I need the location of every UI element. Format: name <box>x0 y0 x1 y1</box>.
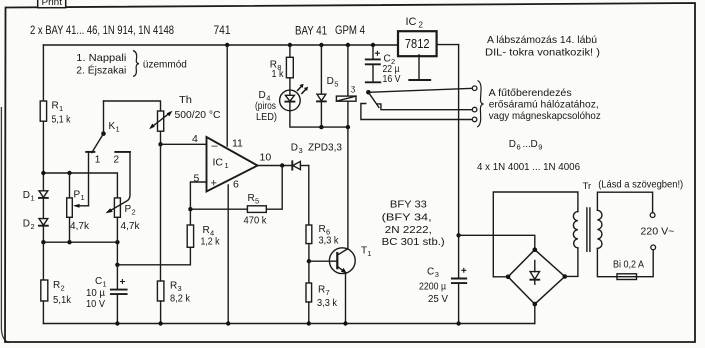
capacitor C2 <box>366 45 401 85</box>
svg-text:LED): LED) <box>256 112 277 123</box>
svg-text:1 k: 1 k <box>272 69 285 80</box>
svg-text:D: D <box>259 90 266 101</box>
wire D2 to node B <box>42 226 44 243</box>
svg-text:4,7k: 4,7k <box>121 221 141 232</box>
resistor R1 <box>40 101 71 126</box>
svg-text:3,3 k: 3,3 k <box>319 235 340 246</box>
transformer Tr secondary coil <box>583 181 602 249</box>
wire bridge AC right to primary bottom <box>565 248 578 277</box>
resistor R7 <box>306 283 338 309</box>
svg-text:1: 1 <box>116 125 120 134</box>
wire base node to T1 <box>309 260 337 262</box>
junction relay bottom <box>346 125 350 129</box>
P2 wiper diagonal wire to contact 2 <box>106 152 130 213</box>
page edge scan artifact <box>1 107 9 343</box>
svg-text:D: D <box>509 139 516 150</box>
diode D1 <box>23 190 48 203</box>
svg-text:P: P <box>74 190 81 201</box>
svg-text:vagy mágneskapcsolóhoz: vagy mágneskapcsolóhoz <box>489 110 601 122</box>
svg-text:IC: IC <box>406 16 417 28</box>
potentiometer P2 <box>114 198 140 242</box>
svg-text:R: R <box>318 285 325 296</box>
wire R8 top <box>289 45 291 57</box>
wire junction to R4 <box>189 209 191 225</box>
svg-text:3: 3 <box>178 284 182 293</box>
svg-text:10 V: 10 V <box>86 299 105 310</box>
wire node C to R3 <box>160 144 162 281</box>
svg-text:3,3 k: 3,3 k <box>317 298 338 309</box>
wire secondary top to mains terminal <box>597 192 652 213</box>
relay coil <box>336 45 356 101</box>
terminal 1 <box>472 86 477 91</box>
svg-text:3: 3 <box>435 270 439 279</box>
svg-text:1: 1 <box>81 193 85 202</box>
svg-text:ʒ: ʒ <box>351 83 356 93</box>
resistor R3 <box>157 281 191 305</box>
svg-text:R: R <box>53 280 60 291</box>
svg-text:C: C <box>95 276 102 287</box>
wire R1 to node A <box>42 121 44 190</box>
node B wire P1/P2 bottoms <box>43 241 117 243</box>
svg-text:220 V~: 220 V~ <box>640 225 674 237</box>
junction D5 bottom <box>319 125 323 129</box>
junction rail/T1 emitter <box>343 321 347 325</box>
resistor R8 <box>270 57 294 80</box>
wire T1 emitter to ground rail <box>345 273 347 324</box>
wire base node to R7 <box>308 261 310 283</box>
terminal 2 <box>472 107 477 112</box>
wire R4 to C1 node <box>117 247 190 264</box>
junction node A / P1 top <box>67 171 71 175</box>
svg-text:741: 741 <box>214 25 231 37</box>
junction node B / P2 bottom <box>115 240 119 244</box>
wire 7812 input from right <box>438 44 459 46</box>
wire R3 to ground rail <box>160 301 162 324</box>
node A wire to P1 P2 tops <box>43 173 117 198</box>
svg-text:1: 1 <box>367 249 371 258</box>
op-amp IC1 <box>192 133 271 192</box>
wire R6 to base node <box>308 244 310 262</box>
wire LED to collector node <box>290 111 348 127</box>
wire R2 to ground rail <box>42 301 44 324</box>
svg-text:7812: 7812 <box>405 37 430 51</box>
junction node C <box>158 142 162 146</box>
diode D2 <box>23 219 48 232</box>
bridge rectifier diamond <box>506 247 567 306</box>
wire R1 top <box>42 45 44 101</box>
svg-text:R: R <box>52 101 59 112</box>
svg-text:Th: Th <box>179 94 192 106</box>
svg-text:ZPD3,3: ZPD3,3 <box>308 142 342 154</box>
potentiometer P1 <box>67 173 90 242</box>
junction node B / P1 bottom <box>67 240 71 244</box>
P1 wiper arm wire to contact 1 <box>73 152 88 208</box>
svg-text:11: 11 <box>232 137 243 149</box>
svg-text:10: 10 <box>260 152 272 164</box>
svg-text:2200 µ: 2200 µ <box>419 281 446 292</box>
svg-text:DIL- tokra vonatkozik! ): DIL- tokra vonatkozik! ) <box>485 46 600 58</box>
resistor R5 <box>244 193 268 227</box>
regulator IC2 7812 <box>398 16 437 56</box>
label 741 <box>214 25 231 37</box>
resistor R6 <box>306 224 339 247</box>
svg-text:1: 1 <box>31 194 35 203</box>
title text 2x BAY41 <box>30 25 174 37</box>
capacitor C1 <box>86 276 127 310</box>
junction rail/IC1 V+ <box>225 43 229 47</box>
svg-text:D: D <box>23 219 30 230</box>
transistor T1 <box>329 246 371 274</box>
diodes D6-D9 note <box>477 139 580 173</box>
svg-text:D: D <box>291 143 298 154</box>
thermistor Th <box>149 94 221 131</box>
svg-text:A fűtőberendezés: A fűtőberendezés <box>489 87 572 99</box>
heater connection text <box>489 87 601 122</box>
svg-text:T: T <box>361 246 367 257</box>
svg-text:A lábszámozás 14. lábú: A lábszámozás 14. lábú <box>487 34 597 46</box>
wire node B to R2 <box>42 242 44 280</box>
+12V top rail wire <box>43 44 398 46</box>
wire bridge AC loop left <box>493 192 578 277</box>
wire relay coil to T1 collector <box>347 101 349 248</box>
wire feedback down <box>266 166 282 210</box>
junction rail/IC1 pin6 <box>226 321 230 325</box>
svg-text:GPM 4: GPM 4 <box>335 25 365 37</box>
svg-text:1: 1 <box>95 155 101 166</box>
svg-text:(Lásd a szövegben!): (Lásd a szövegben!) <box>598 180 683 191</box>
svg-text:D: D <box>531 139 538 150</box>
relay contact throw step to terminal 2 <box>377 104 472 110</box>
svg-text:+: + <box>211 177 217 189</box>
note Lasd a szovegben <box>598 180 683 191</box>
relay second throw bracket to terminal 3 <box>361 104 472 120</box>
wire D3 to R6 <box>308 166 310 226</box>
svg-text:2: 2 <box>61 284 65 293</box>
junction rail/D5 <box>319 43 323 47</box>
LED D4 <box>255 90 300 123</box>
svg-text:2: 2 <box>114 155 120 166</box>
svg-text:BC 301 stb.): BC 301 stb.) <box>382 236 445 248</box>
resistor R2 <box>41 280 72 306</box>
junction node B left <box>41 240 45 244</box>
svg-text:5: 5 <box>334 80 338 89</box>
svg-text:4,7k: 4,7k <box>70 221 90 232</box>
svg-text:6: 6 <box>517 143 521 152</box>
svg-text:2N 2222,: 2N 2222, <box>385 224 432 236</box>
Print button box <box>38 0 66 8</box>
svg-text:3: 3 <box>299 146 303 155</box>
ground symbol under 7812 <box>409 79 430 81</box>
mode list text 1. Nappali 2. Ejszakai uzemmod <box>76 51 187 77</box>
ground rail wire <box>43 323 534 325</box>
svg-text:BAY 41: BAY 41 <box>295 26 327 38</box>
terminal 3 <box>472 117 477 122</box>
fuse Bi 0,2A <box>613 259 644 279</box>
svg-text:R: R <box>170 281 177 292</box>
switch K1 pivot and arm <box>92 101 120 153</box>
junction rail/R3 <box>158 321 162 325</box>
junction base node <box>307 259 311 263</box>
junction pin5/R5/R4 <box>188 207 192 211</box>
wire node C to IC1 pin 4 <box>161 143 207 145</box>
wire K1 to Th <box>104 101 161 111</box>
svg-text:R: R <box>319 224 326 235</box>
svg-text:–: – <box>212 140 219 152</box>
svg-text:R: R <box>248 193 255 204</box>
note: A labszamozas 14 labu DIL-tokra vonatkozik <box>485 34 600 58</box>
junction C1 top <box>115 263 119 267</box>
svg-text:üzemmód: üzemmód <box>143 58 187 70</box>
svg-text:(BFY 34,: (BFY 34, <box>382 211 432 223</box>
svg-text:C: C <box>427 266 434 277</box>
mains voltage label <box>640 225 674 237</box>
wire IC1 output <box>258 165 293 167</box>
svg-text:D: D <box>327 76 334 87</box>
resistor R4 <box>187 225 220 247</box>
wire D5 top <box>320 45 322 94</box>
wire R7 to ground rail <box>308 302 310 324</box>
capacitor C3 <box>419 235 466 323</box>
svg-text:1: 1 <box>59 104 63 113</box>
junction rail/R8 <box>288 43 292 47</box>
wire R8 to LED <box>289 78 291 90</box>
svg-text:6: 6 <box>233 179 239 191</box>
junction rail/R7 <box>307 321 311 325</box>
transistor text BFY33 <box>382 199 445 249</box>
wire 7812 ground stub <box>418 55 420 80</box>
zener D3 <box>291 142 342 170</box>
wire D1-D2 <box>42 198 44 219</box>
wire IC1 pin 6 V- to ground <box>227 185 229 324</box>
wire IC1 pin 11 V+ <box>226 45 228 146</box>
svg-text:D: D <box>23 190 30 201</box>
label BAY 41 GPM 4 <box>295 25 365 38</box>
svg-text:25 V: 25 V <box>428 294 448 305</box>
svg-text:4: 4 <box>192 133 198 145</box>
wire C3 node to bridge top <box>459 235 535 249</box>
svg-text:2: 2 <box>31 222 35 231</box>
svg-text:IC: IC <box>213 157 224 169</box>
ground symbol under C2 <box>366 81 381 83</box>
relay contact common wire to terminal 1 <box>368 88 472 92</box>
wire C1 to ground rail <box>116 294 118 323</box>
junction rail/C3 <box>456 321 460 325</box>
svg-text:8,2 k: 8,2 k <box>170 294 191 305</box>
LED arrows <box>297 84 308 94</box>
svg-text:K: K <box>109 121 116 132</box>
wire R5 to pin5 junction <box>190 208 247 210</box>
svg-text:9: 9 <box>538 143 542 152</box>
svg-text:2: 2 <box>132 207 136 216</box>
svg-text:2: 2 <box>419 21 424 30</box>
wire Th to node C <box>160 131 162 144</box>
wire lower terminal through fuse to secondary <box>597 249 653 277</box>
svg-text:500/20 °C: 500/20 °C <box>175 109 221 121</box>
relay contact arm <box>368 92 379 107</box>
junction output/feedback <box>280 163 284 167</box>
svg-text:(piros: (piros <box>255 101 276 112</box>
svg-text:Bi 0,2 A: Bi 0,2 A <box>613 259 644 270</box>
svg-text:R: R <box>203 225 210 236</box>
wire IC1 pin 5 <box>190 182 206 209</box>
junction rail/C1 <box>115 321 119 325</box>
svg-text:5: 5 <box>255 197 259 206</box>
svg-text:erősáramú hálózatához,: erősáramú hálózatához, <box>489 99 599 111</box>
mains terminal upper <box>650 213 655 218</box>
switch K1 contact 2 <box>114 152 131 166</box>
junction node A left <box>41 171 45 175</box>
wire unregulated supply vertical <box>458 45 460 236</box>
svg-text:5,1k: 5,1k <box>53 295 72 306</box>
svg-text:4 x 1N 4001 ... 1N 4006: 4 x 1N 4001 ... 1N 4006 <box>477 161 580 173</box>
switch K1 contact 1 <box>86 152 101 166</box>
svg-text:2. Éjszakai: 2. Éjszakai <box>76 64 126 77</box>
svg-text:Tr: Tr <box>583 181 592 192</box>
diode D5 <box>317 76 338 127</box>
relay contact pivot <box>366 90 371 95</box>
junction rail/relay <box>346 43 350 47</box>
mains terminal lower <box>651 245 656 250</box>
transformer core <box>587 208 590 251</box>
svg-text:1: 1 <box>225 161 229 170</box>
svg-text:1. Nappali: 1. Nappali <box>76 52 126 64</box>
svg-text:10 µ: 10 µ <box>86 288 105 299</box>
svg-text:2 x BAY 41... 46, 1N 914, 1N 4: 2 x BAY 41... 46, 1N 914, 1N 4148 <box>30 25 174 37</box>
wire node B to C1 <box>116 242 118 289</box>
transformer Tr primary coil <box>573 212 578 248</box>
junction rail/C2 <box>371 43 375 47</box>
terminals brace <box>477 81 484 128</box>
bridge inner diode <box>530 261 539 285</box>
svg-text:470 k: 470 k <box>244 216 268 227</box>
svg-text:5,1 k: 5,1 k <box>52 115 72 126</box>
junction C3 top <box>456 233 460 237</box>
svg-text:BFY 33: BFY 33 <box>390 199 427 211</box>
svg-text:Print: Print <box>42 0 63 7</box>
svg-text:1,2 k: 1,2 k <box>201 236 221 247</box>
svg-text:P: P <box>125 204 132 215</box>
svg-text:16 V: 16 V <box>383 74 401 85</box>
svg-text:7: 7 <box>326 288 330 297</box>
wire bridge bottom to ground rail <box>534 304 536 323</box>
